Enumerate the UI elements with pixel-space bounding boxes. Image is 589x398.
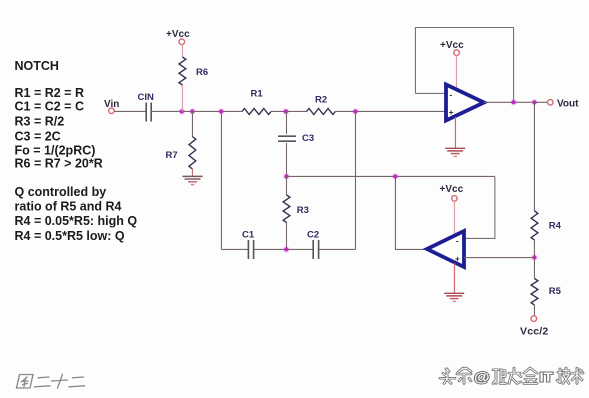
svg-text:R1 = R2 = R: R1 = R2 = R (15, 86, 84, 100)
node Vin terminal (104, 99, 119, 114)
svg-text:R1: R1 (251, 89, 264, 100)
svg-text:C1 = C2 = C: C1 = C2 = C (15, 100, 84, 114)
node D junction dot (283, 173, 289, 179)
svg-text:R6: R6 (196, 67, 208, 78)
wire C3 to node D (286, 143, 288, 176)
wire C1/C2 row (221, 248, 355, 250)
svg-text:R4: R4 (549, 221, 562, 232)
wire U1 output to Vout (484, 101, 548, 103)
text block: filter equations (15, 59, 138, 243)
wire +Vcc to U1 (456, 55, 458, 90)
wire node B to C3 (286, 111, 288, 134)
junction R4/R5 dot (531, 254, 537, 260)
svg-text:ratio of R5 and R4: ratio of R5 and R4 (15, 199, 122, 213)
wire node C down to C2 (355, 111, 357, 249)
svg-text:+: + (449, 108, 454, 117)
junction feedback/output (510, 99, 516, 105)
wire feedback loop U1 (output to inverting input) (415, 28, 513, 103)
svg-text:-: - (456, 237, 459, 246)
svg-text:C1: C1 (242, 229, 255, 240)
node A junction dots (179, 108, 225, 114)
wire R3 to C row (286, 223, 288, 250)
wire node A to R7 (191, 111, 193, 136)
capacitor CIN (138, 92, 155, 122)
ground (U2) (444, 293, 464, 301)
wire U2 to ground (453, 263, 455, 293)
svg-text:CIN: CIN (138, 92, 155, 103)
wire R2 to op-amp U1 (node C) (335, 110, 446, 112)
ground (R7) (183, 176, 203, 184)
svg-text:IT: IT (539, 370, 553, 385)
node B junction dot (283, 108, 289, 114)
svg-text:R6 = R7 > 20*R: R6 = R7 > 20*R (15, 156, 103, 170)
wire Vin to CIN (114, 110, 146, 112)
wire U1 minus input (415, 92, 446, 94)
svg-text:+Vcc: +Vcc (166, 29, 190, 40)
svg-text:+Vcc: +Vcc (440, 184, 464, 195)
svg-text:R2: R2 (315, 94, 327, 105)
svg-text:R5: R5 (549, 286, 562, 297)
wire U2 output feedback drop (395, 176, 427, 249)
wire +Vcc to U2 (453, 201, 455, 235)
node +Vcc terminal (U1 supply) (440, 40, 464, 56)
junction output/R4 (531, 99, 537, 105)
svg-text:R7: R7 (166, 150, 178, 161)
svg-text:R3: R3 (297, 205, 309, 216)
wire U1 to ground (454, 117, 456, 148)
svg-text:Vin: Vin (104, 99, 119, 110)
junction R3/C row dot (283, 246, 289, 252)
svg-text:-: - (450, 91, 453, 100)
caption 图二十二 (Figure 22) (17, 374, 85, 388)
svg-text:Fo = 1/(2pRC): Fo = 1/(2pRC) (15, 144, 96, 158)
node C junction dot (352, 108, 358, 114)
watermark 头条 @卧龙会IT技术 (440, 368, 583, 385)
wire R4 to junction (533, 240, 535, 279)
resistor R7 (166, 137, 196, 170)
op-amp U1 (446, 85, 484, 121)
svg-text:C3 = 2C: C3 = 2C (15, 129, 61, 143)
op-amp U2 (427, 231, 464, 267)
wire node A down to C1 row (220, 111, 222, 249)
svg-text:Vout: Vout (557, 99, 579, 110)
capacitor C1 (242, 229, 255, 259)
svg-text:R4 = 0.5*R5 low: Q: R4 = 0.5*R5 low: Q (15, 229, 125, 243)
node Vcc/2 terminal (520, 316, 548, 338)
wire R1 to R2 (node B) (271, 110, 307, 112)
svg-text:NOTCH: NOTCH (15, 59, 59, 73)
wire node D rail (C3/R3 junction to U2 loop) (287, 175, 495, 177)
wire U2 plus input to R4/R5 junction (464, 257, 534, 259)
wire Vout down to R4 (533, 102, 535, 211)
svg-text:C2: C2 (307, 229, 319, 240)
svg-text:+: + (455, 255, 460, 264)
node Vout terminal (548, 99, 580, 110)
wire R7 to ground (191, 169, 193, 176)
resistor R2 (307, 94, 336, 114)
resistor R1 (242, 89, 271, 115)
resistor R6 (179, 57, 208, 85)
resistor R3 (283, 195, 309, 223)
wire R5 to Vcc/2 (533, 305, 535, 316)
svg-text:Vcc/2: Vcc/2 (520, 326, 548, 338)
svg-text:Q controlled by: Q controlled by (15, 185, 107, 199)
wire +Vcc to R6 (181, 45, 183, 57)
wire R6 to node A (181, 85, 183, 111)
wire CIN to R1 (node A) (151, 110, 242, 112)
wire node D to R3 (286, 176, 288, 195)
resistor R5 (531, 279, 562, 306)
svg-text:+Vcc: +Vcc (440, 40, 464, 51)
svg-text:R4 = 0.05*R5: high Q: R4 = 0.05*R5: high Q (15, 214, 138, 228)
junction U2 output/node D dot (392, 173, 398, 179)
node +Vcc terminal (R6 supply) (166, 29, 190, 45)
capacitor C2 (307, 229, 319, 259)
ground (U1) (445, 148, 465, 156)
node +Vcc terminal (U2 supply) (440, 184, 464, 201)
svg-text:@: @ (474, 370, 490, 386)
capacitor C3 (278, 133, 314, 144)
resistor R4 (531, 211, 562, 240)
wire U2 loop right side to minus input (464, 176, 495, 238)
svg-text:C3: C3 (302, 133, 314, 144)
svg-text:R3 = R/2: R3 = R/2 (15, 115, 65, 129)
